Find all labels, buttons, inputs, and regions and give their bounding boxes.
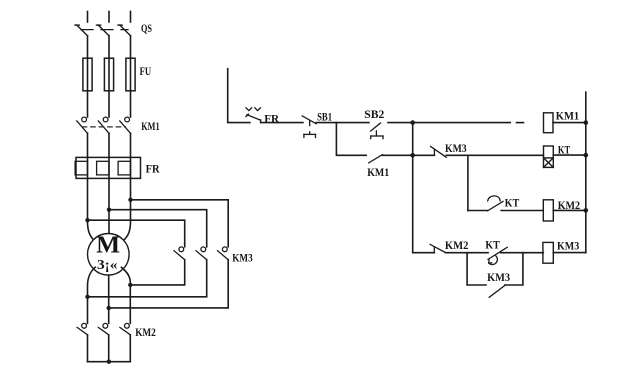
FR heater element 1 — [75, 161, 87, 175]
svg-text:KM2: KM2 — [445, 240, 469, 252]
svg-text:QS: QS — [141, 23, 152, 35]
contact KT NO delayed close — [488, 196, 504, 211]
contactor coil KM1 — [544, 113, 554, 133]
wire motor V2 down — [108, 275, 110, 323]
FR pass-through wires — [88, 157, 131, 178]
wire U phase down to motor — [88, 178, 96, 241]
wire L3 top feed — [130, 12, 132, 23]
node KT right — [584, 153, 589, 158]
contactor KM3 contact pole 1 — [174, 247, 185, 260]
contactor coil KM2 — [543, 200, 553, 221]
svg-text:KM3: KM3 — [487, 272, 510, 284]
wire branch return — [505, 253, 523, 285]
wire KM1 coil to right bus — [553, 122, 586, 124]
wire L1 top feed — [87, 12, 89, 23]
disconnect switch QS pole 1 — [75, 25, 88, 36]
svg-text:KM1: KM1 — [141, 121, 160, 133]
wire KM3 pole3 bottom — [109, 260, 229, 308]
wire KM2 pole1 down — [87, 335, 89, 362]
svg-text:KM3: KM3 — [557, 240, 579, 252]
node KM1 right — [584, 120, 589, 125]
svg-text:FR: FR — [264, 113, 280, 125]
fuse FU pole 3 — [126, 58, 135, 91]
wire rung2 to KT coil — [446, 154, 543, 156]
svg-text:FU: FU — [140, 66, 152, 78]
motor M1 — [88, 234, 130, 276]
contact KM3 NC interlock — [431, 146, 447, 157]
wire KT coil to right bus — [553, 154, 586, 156]
wire right bus vertical — [585, 92, 587, 252]
contact KM2 NC interlock — [430, 244, 446, 252]
svg-text:SB2: SB2 — [364, 109, 384, 121]
FR heater element 2 — [97, 161, 109, 175]
node KM2 right — [584, 208, 589, 213]
wire L1 QS to KM1 — [87, 36, 89, 117]
contactor KM3 contact pole 3 — [218, 247, 229, 260]
svg-text:KM2: KM2 — [135, 327, 156, 339]
wire U tap to KM3 pole1 top — [88, 220, 185, 247]
node U tap — [85, 218, 89, 222]
wire branch rung2 to rung3 — [467, 155, 469, 210]
wire L1 KM1 to FR — [87, 133, 89, 157]
wire L2 QS to KM1 — [108, 36, 110, 117]
wire parallel branch KM3 — [467, 253, 486, 285]
wire rung3 start — [468, 210, 488, 212]
wire SB1 to SB2 — [316, 122, 369, 124]
wire L3 KM1 to FR — [130, 133, 132, 157]
contactor KM3 contact pole 2 — [196, 247, 207, 260]
contactor KM2 contact pole 3 — [120, 323, 130, 334]
node W2 — [128, 283, 132, 287]
node A junction — [410, 120, 415, 125]
stop button SB1 NC — [302, 116, 316, 138]
contact KM1 self-latch NO — [369, 155, 383, 163]
timer coil KT — [544, 146, 554, 167]
svg-text:KT: KT — [505, 197, 520, 209]
wire KM3 coil to right bus — [553, 252, 586, 254]
node V tap — [107, 208, 111, 212]
wire KM3 pole2 bottom — [88, 260, 207, 297]
wire KM2 coil to right bus — [553, 209, 586, 211]
fuse FU pole 1 — [83, 58, 92, 91]
svg-text:KM3: KM3 — [445, 143, 467, 155]
node U2 — [85, 295, 89, 299]
wire V phase down to motor — [108, 178, 110, 233]
start button SB2 NO — [371, 123, 383, 139]
svg-text:KT: KT — [485, 239, 500, 251]
contactor KM1 main contact pole 1 — [77, 117, 88, 133]
contactor KM2 contact pole 1 — [77, 323, 87, 334]
wire W tap to KM3 pole3 top — [131, 200, 229, 247]
svg-text:SB1: SB1 — [317, 112, 332, 124]
node B junction — [410, 153, 415, 158]
wire KM2 pole3 down — [129, 335, 131, 362]
disconnect switch QS pole 3 — [118, 25, 131, 36]
contactor KM1 main contact pole 2 — [98, 117, 109, 133]
wire SB2 to node A — [388, 122, 510, 124]
wire L3 QS to KM1 — [130, 36, 132, 117]
wire L2 KM1 to FR — [108, 133, 110, 157]
wire motor W2 down — [121, 267, 130, 323]
svg-text:FR: FR — [146, 164, 161, 176]
wire W phase down to motor — [122, 178, 130, 241]
svg-text:3¡«: 3¡« — [97, 258, 118, 273]
thermal relay FR NC contact — [246, 108, 261, 123]
wire FR to SB1 — [261, 122, 303, 124]
contactor KM2 contact pole 2 — [98, 323, 108, 334]
wire rung4 start — [413, 252, 435, 254]
fuse FU pole 2 — [104, 58, 113, 91]
wire KM3 pole1 bottom — [130, 260, 184, 285]
wire rung2 start — [413, 154, 435, 156]
QS linkage dashed — [81, 29, 128, 31]
wire control left bus vertical — [412, 123, 414, 253]
wire star point bar — [88, 361, 131, 363]
contactor coil KM3 — [543, 242, 553, 263]
wire rung4 KM2 to KT contact — [446, 252, 488, 254]
wire KM2 pole2 down — [108, 335, 110, 362]
svg-text:KM1: KM1 — [556, 111, 580, 123]
wire V tap to KM3 pole2 top — [109, 210, 207, 247]
node V2 — [107, 306, 111, 310]
wire rung4 to KM3 coil — [501, 252, 544, 254]
contactor KM1 main contact pole 3 — [120, 117, 131, 133]
thermal relay FR heater box — [76, 157, 141, 178]
contact KM3 latch NO — [489, 285, 505, 297]
wire rung3 to KM2 coil — [501, 210, 543, 212]
wire latch branch — [336, 123, 366, 156]
node star point — [107, 360, 111, 364]
wire L2 top feed — [108, 12, 110, 23]
svg-text:M: M — [96, 233, 120, 259]
node W tap — [128, 198, 132, 202]
disconnect switch QS pole 2 — [97, 25, 110, 36]
KM1 linkage dashed — [82, 126, 125, 128]
svg-text:KM1: KM1 — [367, 167, 389, 179]
wire latch to node A — [382, 154, 412, 156]
wire dash before KM1 coil — [517, 122, 524, 124]
contact KT NC delayed open — [488, 247, 507, 264]
svg-text:KM3: KM3 — [232, 253, 253, 265]
wire motor U2 down — [88, 267, 96, 323]
wire control feed left vertical — [228, 69, 250, 123]
FR heater element 3 — [118, 161, 130, 175]
